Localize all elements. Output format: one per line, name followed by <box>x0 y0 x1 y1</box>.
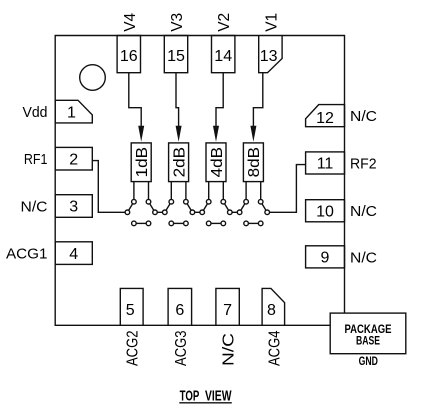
2dB contact circles <box>169 199 174 204</box>
arrowhead into 4dB <box>213 126 219 142</box>
pin 13 box (chamfer bottom-right) <box>259 36 282 73</box>
attenuator block 2dB <box>169 143 189 182</box>
pin 5 box <box>120 288 143 325</box>
svg-text:5: 5 <box>126 302 135 319</box>
pin 3 box <box>55 195 92 218</box>
package base (GND) box <box>330 313 406 354</box>
pin 4 box <box>55 242 92 265</box>
svg-text:12: 12 <box>316 110 334 127</box>
RF bus segment 3 <box>232 211 237 213</box>
svg-text:14: 14 <box>214 48 232 65</box>
pin 16 box <box>117 36 140 73</box>
wire pin 15 to 2dB attenuator <box>176 73 179 128</box>
pin 2 box <box>55 147 92 170</box>
svg-text:6: 6 <box>175 302 184 319</box>
svg-text:11: 11 <box>317 156 334 173</box>
svg-text:RF2: RF2 <box>350 156 377 173</box>
wire pin 16 to 1dB attenuator <box>129 73 141 128</box>
svg-text:ACG1: ACG1 <box>6 246 48 263</box>
svg-text:Vdd: Vdd <box>23 104 48 121</box>
attenuator block 4dB <box>206 143 226 182</box>
2dB legs (wires to switch contacts) <box>170 182 172 200</box>
pin 8 box <box>262 288 285 325</box>
pin 12 box <box>306 105 345 127</box>
2dB switch arms <box>166 204 170 211</box>
pin 15 box <box>164 36 187 73</box>
svg-text:9: 9 <box>321 250 330 267</box>
RF bus segment 2 <box>195 211 200 213</box>
svg-text:N/C: N/C <box>21 199 48 216</box>
svg-text:1: 1 <box>67 104 76 121</box>
attenuator block 8dB <box>243 143 263 182</box>
pin 11 box <box>306 152 345 174</box>
svg-text:N/C: N/C <box>221 333 238 366</box>
svg-text:V4: V4 <box>122 13 139 32</box>
svg-text:BASE: BASE <box>356 336 380 348</box>
pin 9 box <box>306 246 345 268</box>
svg-text:TOP: TOP <box>180 388 200 405</box>
svg-text:V2: V2 <box>216 13 233 32</box>
wire switch bus to RF2 (pin 11) <box>270 165 306 213</box>
svg-text:V3: V3 <box>169 13 186 32</box>
svg-text:PACKAGE: PACKAGE <box>345 324 392 336</box>
svg-text:2dB: 2dB <box>171 147 188 178</box>
svg-text:RF1: RF1 <box>24 151 48 168</box>
svg-text:1dB: 1dB <box>134 147 151 178</box>
svg-text:8: 8 <box>267 302 276 319</box>
arrowhead into 8dB <box>250 126 256 142</box>
2dB bypass contacts <box>169 221 174 226</box>
wire pin 14 to 4dB attenuator <box>216 73 223 128</box>
4dB contact circles <box>206 199 211 204</box>
svg-text:N/C: N/C <box>350 249 377 266</box>
svg-text:GND: GND <box>359 356 378 368</box>
8dB legs (wires to switch contacts) <box>245 182 247 200</box>
8dB switch arms <box>241 204 245 211</box>
svg-text:ACG3: ACG3 <box>173 330 190 366</box>
pin 1 box <box>55 100 92 123</box>
svg-text:10: 10 <box>316 203 334 220</box>
wire pin 13 to 8dB attenuator <box>253 73 262 128</box>
1dB contact circles <box>132 199 137 204</box>
1dB bypass contacts <box>132 221 137 226</box>
svg-text:N/C: N/C <box>350 108 377 125</box>
pin 10 box <box>306 200 345 222</box>
arrowhead into 1dB <box>138 126 144 142</box>
svg-text:13: 13 <box>260 48 278 65</box>
8dB bypass contacts <box>244 221 249 226</box>
svg-text:V1: V1 <box>263 13 280 32</box>
svg-text:ACG4: ACG4 <box>266 330 283 366</box>
svg-text:15: 15 <box>167 48 185 65</box>
svg-text:N/C: N/C <box>350 203 377 220</box>
8dB contact circles <box>244 199 249 204</box>
1dB legs (wires to switch contacts) <box>133 182 135 200</box>
RF bus segment 1 <box>157 211 162 213</box>
wire RF1 (pin 2) to switch bus <box>92 161 125 213</box>
pin 14 box <box>212 36 235 73</box>
arrowhead into 2dB <box>176 126 182 142</box>
svg-text:8dB: 8dB <box>246 147 263 178</box>
svg-text:4: 4 <box>69 246 78 263</box>
svg-text:3: 3 <box>69 199 78 216</box>
pin 7 box <box>216 288 239 325</box>
1dB switch arms <box>129 204 133 211</box>
pin 1 indicator circle <box>80 65 106 91</box>
4dB bypass contacts <box>206 221 211 226</box>
svg-text:7: 7 <box>223 302 232 319</box>
svg-text:2: 2 <box>69 151 78 168</box>
4dB legs (wires to switch contacts) <box>208 182 210 200</box>
svg-text:ACG2: ACG2 <box>125 330 142 366</box>
svg-text:16: 16 <box>120 48 138 65</box>
svg-text:VIEW: VIEW <box>205 388 232 405</box>
attenuator block 1dB <box>131 143 151 182</box>
package outline <box>55 36 344 326</box>
svg-text:4dB: 4dB <box>209 147 226 178</box>
pin 6 box <box>168 288 192 325</box>
4dB switch arms <box>203 204 207 211</box>
